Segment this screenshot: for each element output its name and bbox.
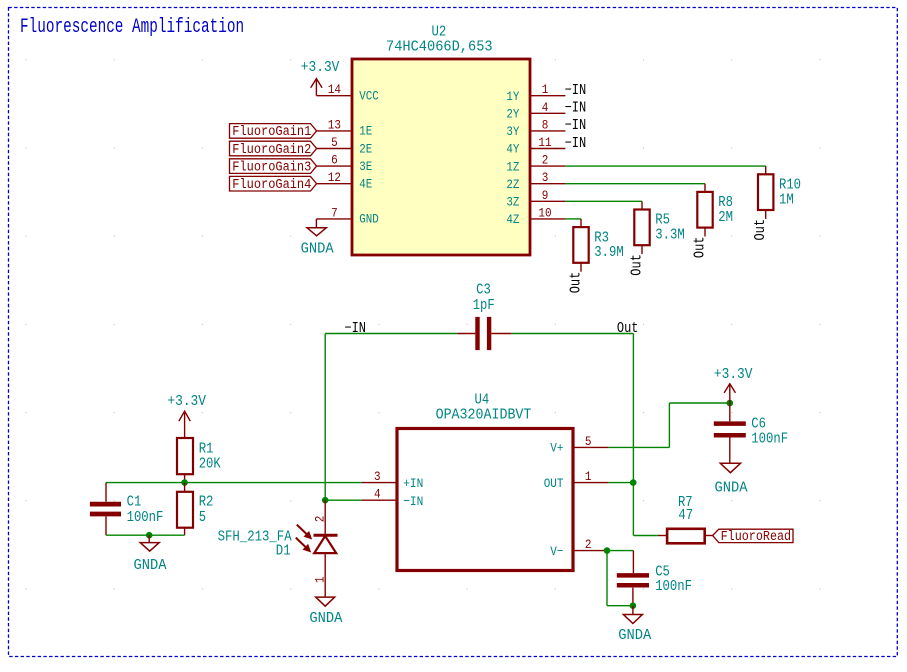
svg-text:2: 2 xyxy=(585,537,592,552)
svg-text:+3.3V: +3.3V xyxy=(714,367,753,383)
svg-text:4E: 4E xyxy=(359,177,372,192)
svg-text:Out: Out xyxy=(693,237,709,259)
svg-text:100nF: 100nF xyxy=(751,432,788,448)
svg-text:2: 2 xyxy=(542,153,549,168)
svg-text:2: 2 xyxy=(313,516,328,523)
svg-text:U4: U4 xyxy=(475,393,490,409)
svg-text:V−: V− xyxy=(550,544,563,559)
svg-text:1E: 1E xyxy=(359,124,372,139)
svg-text:1Y: 1Y xyxy=(506,89,519,104)
svg-text:GNDA: GNDA xyxy=(715,480,748,496)
svg-text:4Y: 4Y xyxy=(506,142,519,157)
svg-text:2M: 2M xyxy=(718,210,733,226)
svg-text:V+: V+ xyxy=(550,441,563,456)
svg-text:−IN: −IN xyxy=(565,101,587,117)
svg-text:D1: D1 xyxy=(276,543,291,559)
svg-text:6: 6 xyxy=(331,153,338,168)
svg-text:Out: Out xyxy=(630,254,646,276)
svg-text:2E: 2E xyxy=(359,141,372,156)
svg-text:OPA320AIDBVT: OPA320AIDBVT xyxy=(436,408,532,424)
svg-text:R10: R10 xyxy=(779,178,801,194)
svg-text:1Z: 1Z xyxy=(506,159,519,174)
svg-text:5: 5 xyxy=(585,434,592,449)
svg-text:1M: 1M xyxy=(779,192,794,208)
svg-text:C3: C3 xyxy=(476,283,491,299)
svg-text:−IN: −IN xyxy=(565,118,587,134)
svg-text:C6: C6 xyxy=(751,417,766,433)
svg-text:U2: U2 xyxy=(432,25,447,41)
svg-text:2Y: 2Y xyxy=(506,107,519,122)
svg-text:14: 14 xyxy=(328,82,341,97)
svg-text:−IN: −IN xyxy=(565,83,587,99)
svg-text:2Z: 2Z xyxy=(506,177,519,192)
svg-text:GNDA: GNDA xyxy=(618,628,651,644)
svg-text:3E: 3E xyxy=(359,159,372,174)
svg-text:9: 9 xyxy=(542,188,549,203)
svg-text:GND: GND xyxy=(359,212,379,227)
svg-text:+IN: +IN xyxy=(403,476,423,491)
svg-text:5: 5 xyxy=(331,135,338,150)
svg-text:11: 11 xyxy=(538,135,551,150)
svg-text:3Y: 3Y xyxy=(506,124,519,139)
svg-text:GNDA: GNDA xyxy=(134,558,167,574)
svg-text:4Z: 4Z xyxy=(506,212,519,227)
svg-text:GNDA: GNDA xyxy=(301,242,334,258)
svg-text:7: 7 xyxy=(331,205,338,220)
svg-text:3.9M: 3.9M xyxy=(594,245,623,261)
svg-text:4: 4 xyxy=(542,100,549,115)
svg-text:100nF: 100nF xyxy=(655,579,692,595)
svg-text:4: 4 xyxy=(374,487,381,502)
svg-text:1: 1 xyxy=(585,469,592,484)
svg-text:20K: 20K xyxy=(199,457,221,473)
svg-text:3: 3 xyxy=(542,170,549,185)
svg-text:−IN: −IN xyxy=(344,321,366,337)
svg-text:3: 3 xyxy=(374,469,381,484)
svg-text:74HC4066D,653: 74HC4066D,653 xyxy=(386,39,493,55)
svg-text:FluoroGain4: FluoroGain4 xyxy=(232,178,311,193)
svg-text:12: 12 xyxy=(328,170,341,185)
svg-text:Out: Out xyxy=(569,272,585,294)
svg-text:3Z: 3Z xyxy=(506,195,519,210)
svg-text:FluoroGain2: FluoroGain2 xyxy=(232,143,311,158)
svg-text:10: 10 xyxy=(538,205,551,220)
svg-text:Out: Out xyxy=(617,321,639,337)
svg-text:R5: R5 xyxy=(655,213,670,229)
svg-text:R3: R3 xyxy=(594,230,609,246)
svg-text:−IN: −IN xyxy=(565,136,587,152)
svg-text:FluoroGain1: FluoroGain1 xyxy=(232,125,311,140)
svg-text:100nF: 100nF xyxy=(127,510,164,526)
svg-text:13: 13 xyxy=(328,117,341,132)
svg-text:FluoroRead: FluoroRead xyxy=(721,530,792,545)
svg-text:47: 47 xyxy=(678,508,693,524)
svg-text:1: 1 xyxy=(313,576,328,583)
svg-text:Fluorescence Amplification: Fluorescence Amplification xyxy=(20,16,244,39)
svg-text:GNDA: GNDA xyxy=(309,611,342,627)
svg-text:5: 5 xyxy=(199,510,206,526)
svg-text:1pF: 1pF xyxy=(473,298,495,314)
svg-text:3.3M: 3.3M xyxy=(655,228,684,244)
svg-text:R2: R2 xyxy=(199,495,214,511)
svg-text:8: 8 xyxy=(542,117,549,132)
svg-text:R8: R8 xyxy=(718,195,733,211)
svg-text:+3.3V: +3.3V xyxy=(301,60,340,76)
svg-text:Out: Out xyxy=(753,219,769,241)
svg-text:R1: R1 xyxy=(199,442,214,458)
svg-text:−IN: −IN xyxy=(403,494,423,509)
svg-text:OUT: OUT xyxy=(544,476,564,491)
svg-text:+3.3V: +3.3V xyxy=(167,394,206,410)
svg-text:C1: C1 xyxy=(127,495,142,511)
svg-text:VCC: VCC xyxy=(359,89,379,104)
svg-text:FluoroGain3: FluoroGain3 xyxy=(232,160,311,175)
svg-text:1: 1 xyxy=(542,82,549,97)
